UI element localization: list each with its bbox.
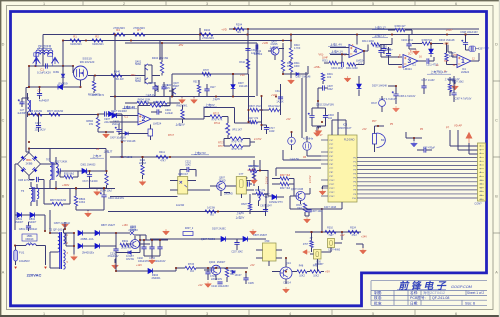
wire bottom bus <box>240 267 248 269</box>
svg-text:7k0?: 7k0? <box>328 234 334 237</box>
svg-text:BZ1: BZ1 <box>381 138 386 142</box>
op-amp IC1B LM324 <box>138 113 151 125</box>
svg-text:R80? 4K7J: R80? 4K7J <box>92 94 105 97</box>
svg-text:+V0: +V0 <box>240 74 245 77</box>
svg-text:R715: R715 <box>188 262 195 266</box>
svg-text:上电0V: 上电0V <box>212 97 220 101</box>
svg-text:R324: R324 <box>350 226 356 229</box>
svg-text:VR1 1K?: VR1 1K? <box>232 129 243 132</box>
resistor R204b <box>200 33 213 36</box>
svg-text:C410 100uF25V: C410 100uF25V <box>211 285 229 288</box>
ground <box>250 229 257 235</box>
svg-text:4.9MHz: 4.9MHz <box>303 137 314 141</box>
svg-text:47K?: 47K? <box>160 159 166 162</box>
svg-text:+300V: +300V <box>62 184 70 187</box>
svg-text:HO: HO <box>454 54 458 57</box>
svg-text:6: 6 <box>455 2 457 6</box>
svg-text:104Z: 104Z <box>327 88 333 91</box>
svg-text:+12V: +12V <box>136 264 142 267</box>
svg-text:13C4?: 13C4? <box>234 274 242 277</box>
capacitor C715 220uF10V <box>205 272 210 274</box>
power arrow left <box>303 250 310 255</box>
svg-text:2-0.5V: 2-0.5V <box>266 176 269 184</box>
optocoupler U3 FA <box>178 177 188 195</box>
svg-text:LM324: LM324 <box>403 67 412 71</box>
svg-text:1800HD: 1800HD <box>224 193 233 196</box>
svg-text:D30? 1N4148: D30? 1N4148 <box>372 84 387 87</box>
resistor R48 10K2 <box>297 270 307 273</box>
wire secondary top <box>63 233 74 246</box>
svg-text:C5B FA?: C5B FA? <box>178 173 189 176</box>
svg-text:P12?: P12? <box>330 188 336 190</box>
wire v160 <box>159 40 161 60</box>
resistor R319 3K3 <box>280 182 289 185</box>
svg-text:2-0.5V: 2-0.5V <box>254 138 262 141</box>
svg-text:D301 1N4003: D301 1N4003 <box>81 164 96 167</box>
resistor R5 10K1W <box>31 113 42 116</box>
svg-text:Q20? 7809C: Q20? 7809C <box>201 238 215 241</box>
svg-text:R5 10K2W: R5 10K2W <box>30 110 43 113</box>
svg-text:HO: HO <box>444 60 448 63</box>
wire opamp2 output <box>151 108 255 123</box>
capacitor C304 104Z <box>342 62 344 67</box>
capacitor C306 4.7uF10V <box>392 91 399 96</box>
svg-text:B: B <box>495 194 498 198</box>
resistor R307 100K <box>445 53 448 61</box>
svg-text:DS97C10?: DS97C10? <box>339 126 352 130</box>
svg-text:2: 2 <box>123 2 125 6</box>
potentiometer VR1 1K <box>226 123 229 135</box>
capacitor C311 471Z <box>418 60 426 62</box>
svg-text:C50: C50 <box>265 239 270 243</box>
capacitor C205 220uF16V <box>243 278 248 280</box>
svg-text:+5V: +5V <box>286 118 291 121</box>
svg-text:-25V: -25V <box>130 74 136 77</box>
op-amp IC1A LM324 <box>457 55 471 68</box>
resistor R311 10KF <box>289 61 292 72</box>
capacitor C313 1A23K <box>278 97 283 99</box>
diode D801 1N4007 <box>17 212 22 217</box>
svg-text:9k1: 9k1 <box>237 31 242 34</box>
svg-text:R30?_2: R30?_2 <box>185 227 194 230</box>
svg-text:R204: R204 <box>204 28 211 32</box>
transformer T1 aux <box>50 162 52 180</box>
svg-text:上电5.4V: 上电5.4V <box>145 93 155 97</box>
resistor R613 <box>248 203 251 210</box>
svg-text:4?6?: 4?6? <box>303 244 309 246</box>
svg-text:+VD?: +VD? <box>446 28 453 32</box>
svg-text:QF-241-08: QF-241-08 <box>432 296 449 300</box>
svg-text:+24V: +24V <box>361 236 367 239</box>
svg-text:4.7KF: 4.7KF <box>294 47 301 50</box>
ground <box>163 229 170 235</box>
svg-text:上电2.5V: 上电2.5V <box>194 150 206 155</box>
resistor R212 1N21W <box>205 210 216 213</box>
wire second bus <box>63 41 291 67</box>
capacitor C604 2x22uF <box>157 109 159 114</box>
svg-text:R712: R712 <box>214 122 221 125</box>
svg-text:C41? 104Z: C41? 104Z <box>324 206 337 209</box>
svg-text:C: C <box>495 118 498 122</box>
svg-text:+V05: +V05 <box>262 42 269 45</box>
svg-text:Sheet 1 of 2: Sheet 1 of 2 <box>467 291 484 295</box>
wire mid columns <box>249 74 281 130</box>
svg-text:1K: 1K <box>207 76 210 79</box>
svg-text:C304 104Z: C304 104Z <box>331 67 343 70</box>
svg-text:104Z: 104Z <box>269 130 275 133</box>
ground <box>205 282 212 288</box>
ground <box>360 248 367 254</box>
svg-text:R1: R1 <box>73 35 77 39</box>
svg-text:Q30? C945: Q30? C945 <box>291 188 304 191</box>
ground <box>179 98 186 104</box>
svg-text:C3? 470pF: C3? 470pF <box>423 146 435 149</box>
resistor R310 4.7KF <box>289 48 292 59</box>
svg-text:批准:: 批准: <box>374 300 382 305</box>
svg-text:D: D <box>495 42 498 46</box>
svg-text:Q304: Q304 <box>209 260 216 264</box>
resistor R607 9K1 <box>181 110 184 119</box>
svg-text:A: A <box>2 270 5 274</box>
svg-text:上电3.1?: 上电3.1? <box>374 25 386 30</box>
svg-text:C313: C313 <box>275 90 281 93</box>
wire long mid verticals <box>302 72 306 138</box>
svg-text:R80? 820K2W: R80? 820K2W <box>50 199 67 202</box>
svg-text:4: 4 <box>289 312 291 316</box>
svg-text:1B: 1B <box>303 156 306 159</box>
capacitor C410 100uF25V <box>217 282 222 284</box>
wire feedback bottom rail <box>108 194 266 212</box>
svg-text:1W: 1W <box>89 122 94 126</box>
AC terminal N <box>45 246 47 266</box>
svg-text:6: 6 <box>455 312 457 316</box>
capacitor C301 1A23K <box>256 44 258 49</box>
svg-text:5: 5 <box>372 312 374 316</box>
wire driver row <box>88 75 145 77</box>
svg-text:R309 4k?: R309 4k? <box>395 25 406 28</box>
wire output bus <box>140 235 168 240</box>
svg-text:上电JT: 上电JT <box>93 153 102 158</box>
svg-text:2: 2 <box>123 312 125 316</box>
svg-text:R41? 10K2: R41? 10K2 <box>120 156 133 159</box>
svg-text:IC3: IC3 <box>343 122 348 126</box>
svg-text:C7?: C7? <box>239 173 244 176</box>
svg-text:1N4148: 1N4148 <box>239 85 248 88</box>
resistor R314 10KF <box>371 43 380 46</box>
svg-text:R611 51k2: R611 51k2 <box>268 105 280 108</box>
crystal Y1 <box>303 142 311 150</box>
resistor R803 820K2W <box>52 202 63 205</box>
svg-text:1: 1 <box>461 58 465 65</box>
svg-text:C1B 2x?24uF: C1B 2x?24uF <box>18 178 34 182</box>
resistor R640 20K0.4W <box>111 74 122 77</box>
svg-text:上电1.4V: 上电1.4V <box>330 41 342 46</box>
resistor R605 5K6 <box>156 101 167 104</box>
svg-text:BR1: BR1 <box>26 158 32 162</box>
AC terminal L <box>14 267 17 269</box>
bridge rectifier BR1 2KBB <box>18 153 41 176</box>
svg-text:R117 47k: R117 47k <box>248 117 259 120</box>
svg-text:C30? 104J: C30? 104J <box>311 210 323 213</box>
svg-text:4uF450V: 4uF450V <box>17 113 27 115</box>
MCU IC3 DS97C102 <box>328 135 357 202</box>
svg-text:R60? 47k: R60? 47k <box>255 189 266 192</box>
svg-text:C30? 4.7uF10V: C30? 4.7uF10V <box>379 98 397 101</box>
svg-text:R314 10KF: R314 10KF <box>362 40 375 43</box>
wire center vertical <box>260 160 272 196</box>
resistor R304 10KJ <box>105 174 108 185</box>
resistor R2 910K2W <box>92 39 103 42</box>
svg-text:2-0.5V: 2-0.5V <box>247 169 254 172</box>
svg-text:270K2W3: 270K2W3 <box>113 26 125 30</box>
transistor Q304 2N3904 <box>211 265 221 275</box>
svg-text:VD-AP: VD-AP <box>454 124 462 128</box>
resistor R318 3K3 <box>280 177 289 180</box>
svg-text:C1815: C1815 <box>270 43 278 46</box>
wire connector feeds <box>450 130 478 150</box>
regulator U5 7805 <box>263 243 277 261</box>
svg-text:R70?: R70? <box>203 69 209 72</box>
wire 2.5V bus <box>110 156 255 158</box>
svg-text:C30? 4N60: C30? 4N60 <box>328 249 341 252</box>
diode D702 1N4148 input <box>112 113 117 118</box>
svg-text:10K2: 10K2 <box>313 274 319 277</box>
svg-text:P14?: P14? <box>330 196 336 198</box>
svg-text:P10?: P10? <box>330 180 336 182</box>
wire top bus <box>43 35 479 67</box>
svg-text:上电3.4V: 上电3.4V <box>123 104 135 109</box>
svg-text:C9014: C9014 <box>283 281 291 285</box>
inductor L5 <box>26 244 36 246</box>
capacitor C330 470pF <box>424 147 426 152</box>
svg-text:Size: B: Size: B <box>465 301 475 305</box>
svg-text:C804 10uF16V: C804 10uF16V <box>108 197 124 200</box>
zener D307 PTV <box>272 194 277 199</box>
svg-text:2C?: 2C? <box>408 53 413 56</box>
svg-text:FLD DNO: FLD DNO <box>344 138 355 141</box>
wire x248 drop <box>172 29 248 97</box>
svg-text:3: 3 <box>206 312 208 316</box>
svg-text:3: 3 <box>407 58 411 65</box>
capacitor C301b 104Z <box>323 85 325 90</box>
svg-text:2N390?: 2N390? <box>217 261 226 264</box>
svg-text:2-0.5V: 2-0.5V <box>309 175 312 183</box>
resistor R710 47K <box>210 115 222 118</box>
capacitor C207 104 <box>234 243 239 245</box>
capacitor C202 100uF16V <box>141 247 146 249</box>
wire right vertical x115 <box>114 34 116 110</box>
diode D103 2N4001E <box>78 243 83 248</box>
ground <box>85 211 92 217</box>
capacitor C710 104Z <box>264 128 269 130</box>
svg-text:海信2CT0412: 海信2CT0412 <box>423 290 445 295</box>
fuse FU1 10A250V <box>14 250 18 261</box>
resistor R801 4K7J <box>92 81 95 91</box>
capacitor C901 2412 <box>105 111 107 116</box>
wire r310 column <box>290 34 292 48</box>
svg-text:220VAC: 220VAC <box>27 272 42 277</box>
svg-text:9W 20V120: 9W 20V120 <box>80 60 95 64</box>
capacitor C1 0.2uF1K2V <box>46 63 48 68</box>
svg-text:R640: R640 <box>114 69 121 73</box>
svg-text:101 1K2V: 101 1K2V <box>35 129 46 132</box>
capacitor C607 104 <box>263 210 268 212</box>
ground <box>344 76 351 82</box>
svg-text:R30? 8k2: R30? 8k2 <box>248 165 259 168</box>
svg-text:1: 1 <box>43 2 45 6</box>
svg-text:QF-20FR: QF-20FR <box>38 45 52 49</box>
svg-text:上电3.1?: 上电3.1? <box>374 32 386 37</box>
diode D2 <box>61 74 65 77</box>
svg-text:上电JT: 上电JT <box>104 149 113 153</box>
svg-text:0.2uF1K2V: 0.2uF1K2V <box>37 71 51 75</box>
capacitor C310 47uF400V <box>85 172 92 177</box>
svg-text:2K10.4W: 2K10.4W <box>121 247 132 250</box>
transformer T5 standby <box>31 187 33 201</box>
transistor Q306 C945 <box>296 191 305 200</box>
diode D904 2N4001 <box>148 268 153 273</box>
svg-text:C30? *K8?: C30? *K8? <box>478 48 490 50</box>
wire AC line <box>26 66 74 152</box>
resistor R322 2K2 <box>379 100 386 107</box>
capacitor C204 104 <box>157 247 162 249</box>
svg-text:C?: C? <box>37 89 41 93</box>
svg-text:R310: R310 <box>327 226 333 229</box>
svg-text:D: D <box>2 42 5 46</box>
resistor R604 110K <box>137 101 148 104</box>
svg-text:104: 104 <box>328 117 333 120</box>
svg-text:C: C <box>2 118 5 122</box>
diode D205 <box>243 236 248 241</box>
svg-text:IC1: IC1 <box>412 63 417 66</box>
capacitor C210 470uF10V <box>113 249 118 251</box>
svg-text:上电0V: 上电0V <box>205 102 214 107</box>
svg-text:R303 8k2: R303 8k2 <box>64 172 75 175</box>
svg-text:2N4001Ex: 2N4001Ex <box>82 250 95 254</box>
wire snubber rail <box>29 149 106 172</box>
resistor R309 4K <box>395 28 405 31</box>
svg-text:A: A <box>495 270 498 274</box>
capacitor C301 1A23K2 <box>245 49 250 51</box>
svg-text:+B: +B <box>96 148 99 151</box>
resistor R804 16K2 <box>74 196 77 206</box>
svg-text:+5V: +5V <box>362 128 367 131</box>
resistor R324 47K <box>348 230 359 233</box>
resistor R308b 5K1 <box>422 42 432 45</box>
svg-text:2N4001: 2N4001 <box>151 276 161 280</box>
svg-text:R31? 3k3: R31? 3k3 <box>280 187 291 190</box>
svg-text:4: 4 <box>289 2 291 6</box>
svg-text:-L5-: -L5- <box>28 241 33 245</box>
svg-text:1N400?: 1N400? <box>15 221 24 224</box>
capacitor C1B 2x224uF 1K2V <box>37 177 39 182</box>
capacitor C305 <box>381 49 386 51</box>
svg-text:16K2: 16K2 <box>79 200 86 204</box>
svg-text:220uF10V: 220uF10V <box>211 278 222 281</box>
svg-text:270K2W3: 270K2W3 <box>133 26 145 30</box>
svg-text:LM324: LM324 <box>153 122 162 126</box>
diode D701 1N4148 <box>125 132 128 136</box>
diode D104 2N4001E <box>95 243 100 248</box>
resistor R301 1K2 <box>321 73 324 81</box>
capacitor C804 10uF16V <box>100 192 107 197</box>
relay L5B1 D3001K <box>22 234 37 241</box>
svg-text:R311 10KF: R311 10KF <box>346 67 358 70</box>
wire x122 drop <box>121 114 123 157</box>
svg-text:1A23KZ: 1A23KZ <box>251 52 260 55</box>
resistor R4 270K2W <box>113 33 125 36</box>
svg-text:1N5242 PTV: 1N5242 PTV <box>269 201 283 204</box>
wire left feeds <box>276 150 321 176</box>
svg-text:名称:: 名称: <box>410 290 418 295</box>
power ground <box>103 132 110 138</box>
resistor R305b 8K2 <box>249 169 257 172</box>
ground <box>149 258 156 264</box>
svg-text:R70? 47K: R70? 47K <box>232 148 243 151</box>
svg-text:*K8?: *K8? <box>264 197 270 199</box>
svg-text:R310: R310 <box>239 61 245 64</box>
buzzer BZ1 <box>373 133 386 148</box>
arrester FV2 <box>51 57 59 64</box>
svg-text:C31? 47uF400: C31? 47uF400 <box>82 181 98 183</box>
op-amp IC1C LM324 <box>403 55 418 68</box>
svg-text:C40?: C40? <box>149 83 155 85</box>
resistor R1 910K2W <box>70 39 81 42</box>
svg-text:D4W: D4W <box>53 70 59 74</box>
resistor R5a 270K2W <box>133 33 145 36</box>
svg-text:2K6.4W: 2K6.4W <box>114 77 124 81</box>
svg-text:104Z: 104Z <box>185 163 191 166</box>
svg-text:3: 3 <box>206 2 208 6</box>
svg-text:C306 4.7uF10V: C306 4.7uF10V <box>399 95 416 98</box>
svg-text:18V1W: 18V1W <box>126 258 135 261</box>
svg-text:R304 10kJ: R304 10kJ <box>100 190 112 193</box>
svg-text:Q40?: Q40? <box>173 83 179 85</box>
resistor R310b 7K <box>325 230 336 233</box>
svg-text:PCB图号:: PCB图号: <box>410 295 426 300</box>
wire opamp4 vcc <box>356 35 358 45</box>
svg-text:C31? 1n16V: C31? 1n16V <box>421 79 435 82</box>
capacitor C320 104 <box>306 210 311 212</box>
svg-text:2KBB: 2KBB <box>26 161 33 165</box>
svg-text:4uF400?: 4uF400? <box>39 98 50 102</box>
svg-text:1N400?: 1N400? <box>28 221 37 224</box>
wire 43 stub bus <box>125 43 257 96</box>
resistor R612 47K <box>256 192 264 195</box>
svg-text:+5V: +5V <box>340 234 345 237</box>
svg-text:+V0?: +V0? <box>271 94 278 97</box>
svg-text:C30? 4.7uF16V: C30? 4.7uF16V <box>455 98 472 101</box>
capacitor C303 104 <box>323 116 328 118</box>
capacitor C3 4uF400V <box>37 94 42 96</box>
svg-text:LM324: LM324 <box>461 70 470 74</box>
svg-text:5660: 5660 <box>135 62 141 66</box>
capacitor C309 pill <box>469 46 476 52</box>
svg-text:1A21W: 1A21W <box>176 204 185 207</box>
svg-text:1x22uF: 1x22uF <box>165 112 174 115</box>
svg-text:R604 330K: R604 330K <box>137 101 150 104</box>
svg-text:10K2: 10K2 <box>299 274 305 277</box>
wire mcu bottom <box>290 196 342 209</box>
svg-text:R80? 100K2W: R80? 100K2W <box>47 110 64 113</box>
wire vd bus <box>229 28 479 30</box>
svg-text:220uF16V: 220uF16V <box>154 260 165 263</box>
svg-text:1: 1 <box>43 312 45 316</box>
capacitor C407b <box>204 89 209 91</box>
svg-text:+5V: +5V <box>325 270 330 274</box>
svg-text:R204: R204 <box>236 22 243 26</box>
svg-text:D30? 2A39C: D30? 2A39C <box>212 228 226 231</box>
